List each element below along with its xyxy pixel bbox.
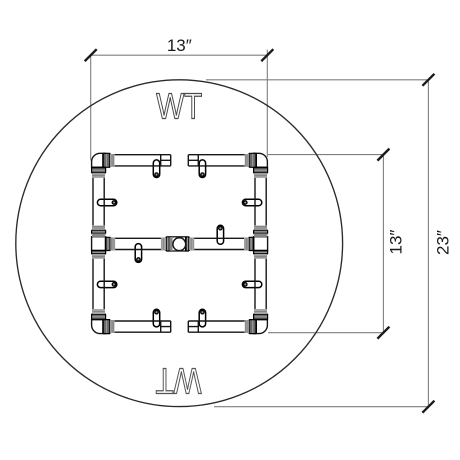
socket band top-left elbow horizontal [110, 154, 115, 167]
pipe top rail left half [103, 155, 171, 166]
socket ring center fitting right mouth [186, 237, 189, 251]
pipe bottom rail right half [188, 321, 256, 332]
svg-text:13″: 13″ [167, 36, 192, 55]
pipe left rail [93, 167, 104, 319]
socket ring top-left elbow vertical mouth [92, 167, 106, 173]
stub peg top rail left (points down) [153, 160, 159, 178]
socket band right tee branch [244, 238, 249, 251]
socket band left tee bottom [92, 254, 105, 259]
extension line left of top dimension [90, 55, 92, 160]
svg-text:13″: 13″ [387, 230, 406, 255]
socket ring right tee branch mouth [249, 237, 254, 250]
socket band right tee top outer [254, 225, 267, 230]
stub peg left rail upper (points right) [97, 199, 116, 205]
stub peg bottom rail left (points up) [153, 309, 159, 327]
extension line bottom of inner 13in dimension [268, 332, 383, 334]
center fitting open socket circle [173, 238, 186, 251]
pipe edges left rail [93, 167, 104, 319]
tick mark top end of inner dimension [377, 149, 389, 161]
socket band bottom-right elbow vertical [254, 309, 267, 314]
socket ring left tee top mouth [92, 230, 106, 233]
stub peg right rail lower (points left) [242, 281, 261, 287]
socket ring right tee bottom mouth [254, 251, 268, 254]
pipe edges bottom rail right half [188, 321, 256, 332]
top dimension line 13in [91, 54, 268, 56]
pipe edges top rail left half [103, 155, 171, 166]
extension line top of inner 13in dimension [268, 154, 383, 156]
pipe edges right rail [255, 167, 266, 319]
extension line bottom of 23in dimension [214, 406, 428, 408]
open bell end top rail right pipe [188, 155, 198, 166]
socket band top-right elbow horizontal [245, 154, 250, 167]
circular table top outline [16, 80, 343, 407]
stub peg middle bar left (points down) [135, 244, 141, 263]
socket band left tee top outer [92, 225, 105, 230]
pipe edges top rail right half [188, 155, 256, 166]
socket band bottom-right elbow horizontal [245, 320, 250, 333]
socket ring top-right elbow vertical mouth [254, 167, 268, 173]
socket band top-right elbow vertical [254, 173, 267, 178]
socket band right tee bottom [254, 254, 267, 259]
stub peg top rail right (points down) [199, 160, 205, 178]
socket ring bottom-right elbow vertical mouth [254, 314, 268, 320]
socket ring bottom-right elbow horizontal mouth [249, 320, 256, 334]
pipe edges bottom rail left half [103, 321, 171, 332]
svg-text:WT: WT [156, 86, 202, 127]
pipe edges middle bar [106, 238, 254, 249]
tee fitting right rail [254, 237, 268, 251]
tee fitting left rail [92, 237, 106, 251]
pipe middle cross bar [106, 238, 254, 249]
stub peg left rail lower (points right) [97, 281, 116, 287]
socket band top-left elbow vertical [92, 173, 105, 178]
tick mark right end of top dimension [261, 49, 273, 61]
pipe right rail [255, 167, 266, 319]
socket band center fitting left inner [170, 237, 173, 250]
inner right dimension line 13in [382, 155, 384, 333]
tick mark bottom end of inner dimension [377, 327, 389, 339]
socket ring center fitting left mouth [166, 237, 169, 251]
socket band bottom-left elbow horizontal [110, 320, 115, 333]
stub peg right rail upper (points left) [242, 199, 261, 205]
socket band left tee branch [110, 238, 115, 251]
socket band right tee top inner [254, 234, 267, 237]
pipe top rail right half [188, 155, 256, 166]
socket band left tee top inner [92, 234, 105, 237]
stub peg middle bar right (points up) [217, 225, 223, 244]
open bell end top rail left pipe [161, 155, 171, 166]
elbow fitting top-right corner [254, 153, 268, 167]
extension line top of 23in dimension [206, 79, 428, 81]
extension line right of top dimension [266, 50, 268, 157]
center tee fitting body [170, 237, 186, 251]
outer right dimension line 23in [427, 80, 429, 407]
socket band center fitting right outer [189, 238, 194, 251]
socket ring bottom-left elbow vertical mouth [92, 314, 106, 320]
socket ring top-left elbow horizontal mouth [103, 153, 110, 167]
tick mark top end of outer dimension [422, 74, 434, 86]
tick mark bottom end of outer dimension [422, 401, 434, 413]
open bell end bottom rail right pipe [188, 321, 198, 332]
svg-text:WT: WT [155, 361, 201, 402]
socket ring top-right elbow horizontal mouth [249, 153, 256, 167]
socket band center fitting left outer [161, 238, 166, 251]
elbow fitting top-left corner [92, 153, 106, 167]
pipe bottom rail left half [103, 321, 171, 332]
elbow fitting bottom-left corner [92, 320, 106, 334]
socket ring left tee branch mouth [106, 237, 111, 250]
stub peg bottom rail right (points up) [199, 309, 205, 327]
open bell end bottom rail left pipe [161, 321, 171, 332]
svg-text:23″: 23″ [433, 230, 452, 255]
elbow fitting bottom-right corner [254, 320, 268, 334]
socket ring left tee bottom mouth [92, 251, 106, 254]
socket ring right tee top mouth [254, 230, 268, 233]
socket ring bottom-left elbow horizontal mouth [103, 320, 110, 334]
socket band bottom-left elbow vertical [92, 309, 105, 314]
tick mark left end of top dimension [85, 49, 97, 61]
